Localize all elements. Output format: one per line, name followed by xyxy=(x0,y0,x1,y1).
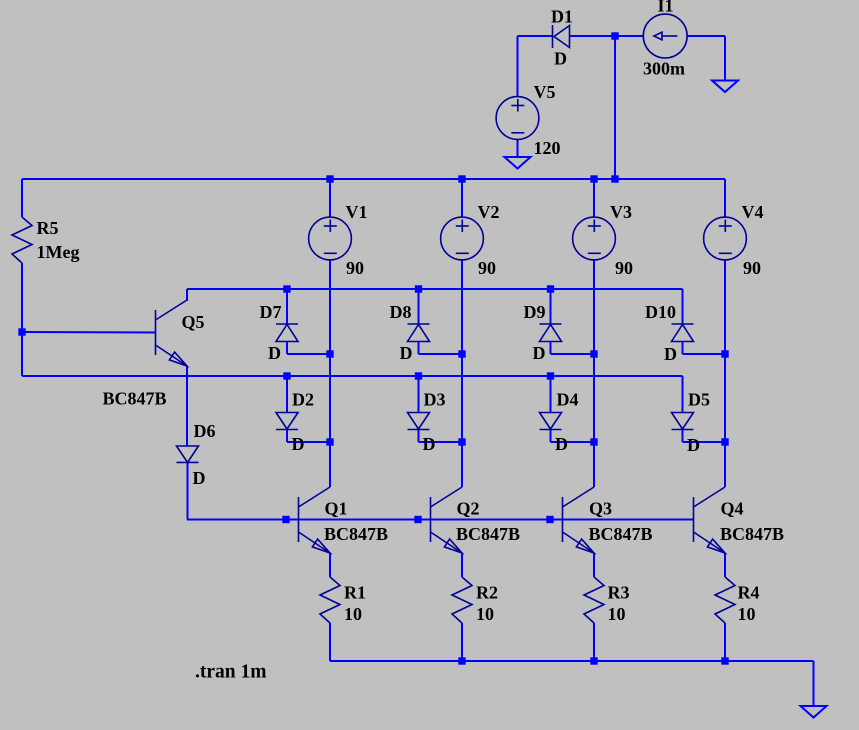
svg-text:D: D xyxy=(423,434,436,454)
svg-text:90: 90 xyxy=(743,258,761,278)
svg-text:D: D xyxy=(400,343,413,363)
svg-text:D: D xyxy=(664,344,677,364)
svg-text:V5: V5 xyxy=(534,82,556,102)
svg-text:D6: D6 xyxy=(194,421,216,441)
svg-text:10: 10 xyxy=(738,604,756,624)
svg-text:Q1: Q1 xyxy=(325,498,348,518)
svg-text:R3: R3 xyxy=(608,582,630,602)
svg-text:I1: I1 xyxy=(658,0,674,15)
svg-text:120: 120 xyxy=(534,138,561,158)
svg-text:R4: R4 xyxy=(738,582,760,602)
svg-text:D: D xyxy=(555,434,568,454)
svg-text:Q4: Q4 xyxy=(721,498,744,518)
svg-text:D: D xyxy=(533,343,546,363)
svg-text:R5: R5 xyxy=(37,218,59,238)
svg-text:BC847B: BC847B xyxy=(103,389,167,409)
svg-text:BC847B: BC847B xyxy=(456,524,520,544)
svg-text:V1: V1 xyxy=(346,202,368,222)
svg-text:90: 90 xyxy=(478,258,496,278)
svg-text:90: 90 xyxy=(615,258,633,278)
svg-text:R1: R1 xyxy=(344,582,366,602)
svg-text:D1: D1 xyxy=(551,6,573,26)
svg-text:10: 10 xyxy=(476,604,494,624)
svg-text:.tran 1m: .tran 1m xyxy=(195,662,267,683)
svg-text:D3: D3 xyxy=(424,389,446,409)
svg-text:D4: D4 xyxy=(557,389,579,409)
svg-text:300m: 300m xyxy=(643,58,685,78)
svg-text:D: D xyxy=(193,468,206,488)
svg-text:D: D xyxy=(554,48,567,68)
svg-text:D8: D8 xyxy=(390,302,412,322)
svg-text:D2: D2 xyxy=(292,389,314,409)
svg-text:R2: R2 xyxy=(476,582,498,602)
svg-text:V2: V2 xyxy=(478,202,500,222)
svg-text:V4: V4 xyxy=(742,202,764,222)
svg-text:D9: D9 xyxy=(524,302,546,322)
svg-text:D10: D10 xyxy=(645,302,676,322)
svg-text:D: D xyxy=(687,435,700,455)
svg-text:Q2: Q2 xyxy=(457,498,480,518)
svg-text:BC847B: BC847B xyxy=(589,524,653,544)
svg-text:D: D xyxy=(292,434,305,454)
svg-text:V3: V3 xyxy=(610,202,632,222)
svg-text:Q3: Q3 xyxy=(589,498,612,518)
svg-text:10: 10 xyxy=(608,604,626,624)
svg-text:1Meg: 1Meg xyxy=(37,242,80,262)
svg-text:BC847B: BC847B xyxy=(720,524,784,544)
svg-text:10: 10 xyxy=(344,604,362,624)
svg-text:D: D xyxy=(268,343,281,363)
svg-text:BC847B: BC847B xyxy=(324,524,388,544)
svg-text:90: 90 xyxy=(346,258,364,278)
svg-text:D5: D5 xyxy=(688,389,710,409)
svg-text:D7: D7 xyxy=(260,302,282,322)
svg-text:Q5: Q5 xyxy=(182,312,205,332)
